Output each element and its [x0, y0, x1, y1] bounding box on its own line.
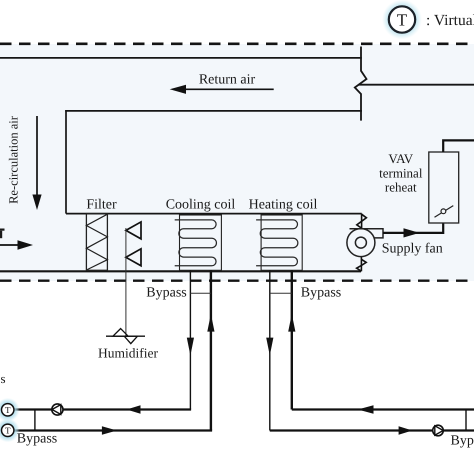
svg-text:Filter: Filter [86, 198, 117, 213]
svg-text:T: T [5, 426, 11, 436]
svg-text:Cooling coil: Cooling coil [166, 198, 236, 213]
svg-text:reheat: reheat [385, 180, 417, 195]
svg-text:Bypass: Bypass [17, 432, 57, 447]
svg-text:Re-circulation air: Re-circulation air [7, 115, 21, 204]
svg-text:Bypass: Bypass [146, 285, 186, 300]
svg-text:terminal: terminal [379, 166, 423, 181]
svg-text:Return air: Return air [199, 73, 256, 88]
svg-text:s: s [1, 371, 6, 386]
svg-text:VAV: VAV [388, 151, 413, 166]
svg-text:Bypass: Bypass [301, 285, 341, 300]
svg-text:Supply fan: Supply fan [382, 242, 443, 257]
svg-text:Bypass: Bypass [451, 434, 474, 449]
svg-text:: Virtual: : Virtual [426, 12, 474, 29]
svg-text:T: T [397, 11, 408, 30]
svg-text:Humidifier: Humidifier [98, 346, 158, 361]
svg-text:T: T [5, 405, 11, 415]
svg-text:Heating coil: Heating coil [249, 198, 318, 213]
